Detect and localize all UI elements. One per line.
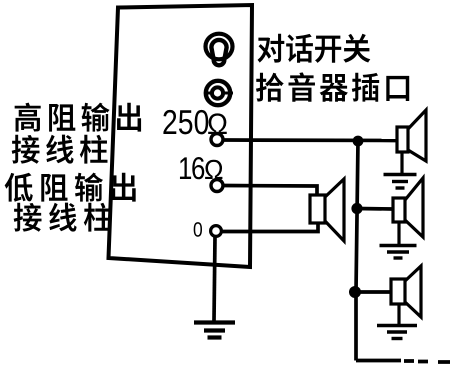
label 16Ω value: [180, 157, 204, 179]
label 250Ω value: [163, 110, 208, 134]
label 16Ω omega: [205, 160, 222, 179]
label 250Ω omega: [208, 113, 227, 134]
label 高阻输出 line1: [15, 103, 141, 132]
wire bus junction to bottom speaker: [355, 290, 391, 294]
wire 16Ω terminal to left speaker: [224, 186, 318, 197]
label 接线柱 line2: [12, 135, 108, 164]
ground (amplifier 0 terminal): [194, 323, 235, 338]
terminal 250Ω: [211, 134, 223, 146]
pickup jack J1 (拾音器插口): [204, 81, 233, 105]
terminal 16Ω: [211, 180, 223, 192]
wire LS2 to ground: [400, 152, 403, 174]
amplifier box outline: [109, 5, 253, 267]
wire 0 terminal to left speaker: [222, 222, 319, 232]
ground (LS2): [384, 175, 417, 189]
label 低阻输出 line3: [5, 173, 136, 202]
toggle switch S1 (对话开关): [206, 34, 233, 66]
label 拾音器插口 (pickup jack): [256, 72, 409, 101]
junction node at bottom speaker / bus: [349, 286, 361, 298]
speaker LS1 (16Ω/0 left): [310, 179, 344, 241]
terminal 0: [211, 226, 222, 237]
junction node at 250Ω wire / bus: [353, 136, 364, 147]
ground (LS3): [380, 246, 417, 259]
wire bus junction to mid speaker: [357, 207, 393, 211]
wire 250Ω terminal to top speaker: [224, 138, 397, 142]
label 接线柱 line4: [14, 203, 112, 232]
label 对话开关 (dialog switch): [258, 34, 371, 63]
wire bottom dashed continuation: [356, 361, 450, 363]
speaker LS3 (mid right): [393, 178, 423, 237]
speaker LS2 (top right): [397, 110, 426, 161]
wire bus vertical: [356, 141, 358, 361]
junction node at mid speaker / bus: [351, 203, 362, 214]
ground (LS4): [377, 326, 417, 339]
wire LS4 to ground: [397, 304, 400, 325]
wire 0 terminal down to ground: [214, 237, 215, 322]
speaker LS4 (bottom right): [391, 266, 421, 317]
wire LS3 to ground: [397, 222, 400, 245]
label 0: [194, 222, 202, 237]
